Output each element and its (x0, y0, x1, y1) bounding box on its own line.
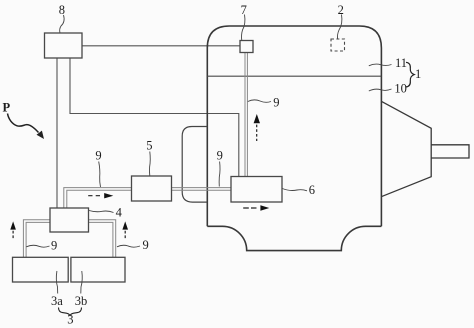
underbrace for 3 (59, 308, 82, 317)
svg-text:2: 2 (338, 3, 344, 17)
dashed arrow right (in pipe 4-5) (88, 195, 100, 197)
dashed arrow up (right of tank 3b) (124, 231, 126, 239)
svg-text:4: 4 (116, 206, 123, 220)
tank 3a box (13, 257, 69, 282)
svg-text:3: 3 (67, 313, 73, 327)
pipe: right tank3 to box4 (double line) (89, 220, 116, 257)
tank 3b box (71, 257, 125, 282)
pipe: box7 down to box6 (double line) (245, 53, 247, 177)
svg-text:8: 8 (59, 3, 65, 17)
svg-text:9: 9 (51, 239, 57, 253)
tank 1 outline (207, 26, 381, 251)
svg-text:9: 9 (143, 238, 149, 252)
wire: box8 right drop, elbow to box6 top (70, 58, 239, 177)
svg-text:9: 9 (95, 149, 101, 163)
svg-text:3a: 3a (51, 294, 63, 308)
svg-text:9: 9 (217, 148, 223, 162)
filler pipe (431, 145, 469, 158)
wire: box8 to box7 (82, 45, 240, 47)
pipe: left tank3 to box4 (double line) (23, 220, 50, 257)
dashed arrow up (right of pipe 7-6) (256, 125, 258, 141)
loop pipe on tank left wall (182, 127, 207, 203)
pipe: box4 to box5 (double line) (64, 188, 132, 208)
fuel level line (10/11 boundary) (207, 75, 381, 77)
svg-text:10: 10 (394, 82, 407, 96)
brace for 1 (406, 62, 414, 87)
box 7 (240, 41, 253, 53)
svg-text:9: 9 (273, 96, 279, 110)
svg-text:P: P (3, 101, 11, 115)
svg-text:11: 11 (395, 56, 407, 70)
svg-text:7: 7 (241, 3, 247, 17)
svg-text:1: 1 (415, 67, 421, 81)
wire: box8 left drop to box4 (56, 58, 58, 208)
box 6 (231, 177, 282, 203)
filler neck cone (381, 101, 431, 196)
svg-text:6: 6 (309, 183, 315, 197)
box 4 (50, 208, 89, 232)
svg-text:3b: 3b (75, 294, 88, 308)
box 5 (132, 176, 172, 201)
dashed arrow right (below box6) (243, 207, 256, 209)
dashed box 2 (331, 39, 345, 51)
box 8 (45, 33, 83, 58)
dashed arrow up (left of tank 3a) (12, 231, 14, 239)
pipe: box5 to box6 (double line) (172, 188, 232, 191)
svg-text:5: 5 (146, 138, 152, 152)
